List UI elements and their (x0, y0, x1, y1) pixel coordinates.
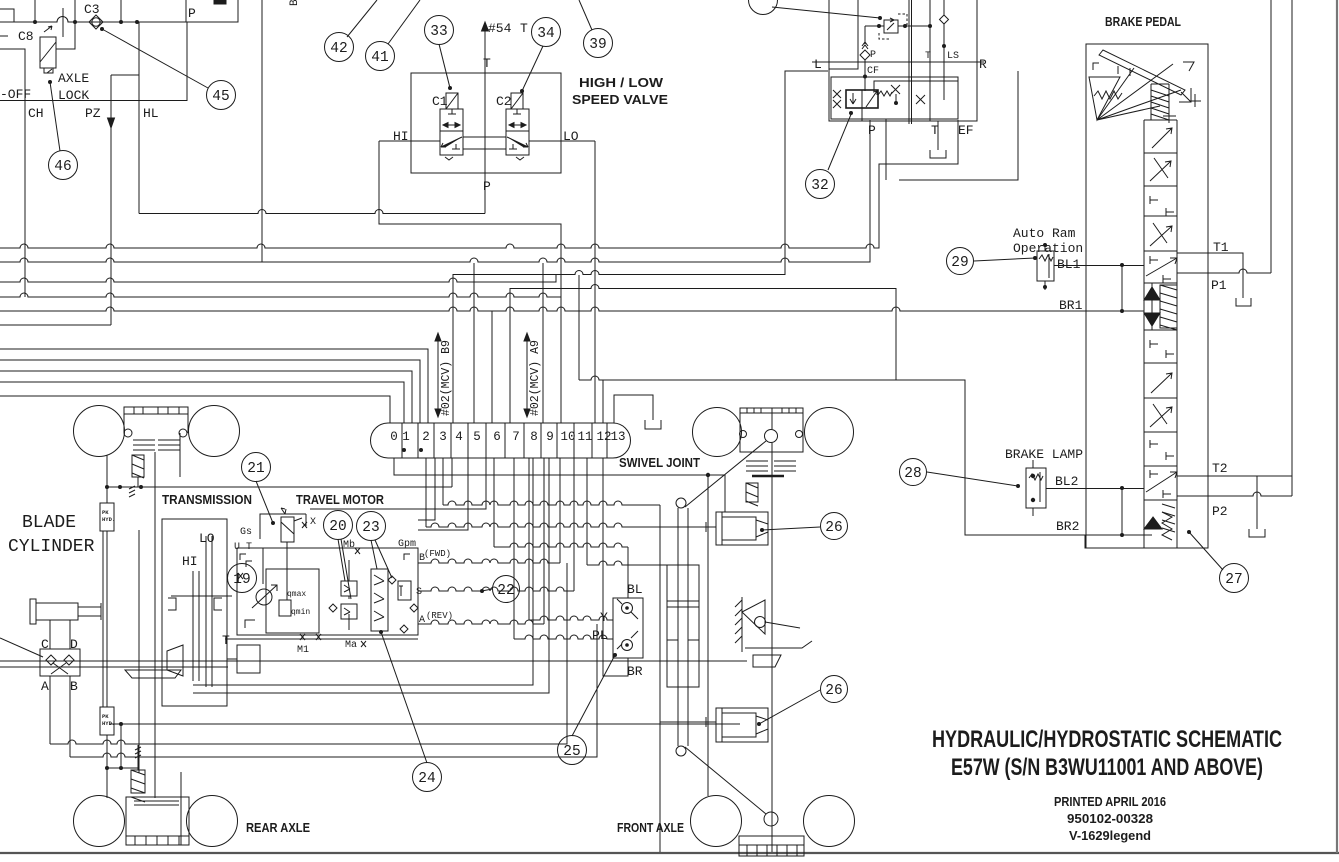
svg-text:0: 0 (390, 430, 398, 444)
svg-text:BRAKE LAMP: BRAKE LAMP (1005, 447, 1083, 462)
svg-text:B: B (70, 679, 78, 694)
svg-text:BRAKE PEDAL: BRAKE PEDAL (1105, 15, 1181, 29)
svg-text:PZ: PZ (85, 106, 101, 121)
svg-text:SPEED VALVE: SPEED VALVE (572, 93, 668, 107)
svg-text:Ma: Ma (345, 640, 357, 651)
svg-text:24: 24 (418, 771, 435, 787)
svg-text:42: 42 (330, 41, 347, 57)
svg-text:6: 6 (493, 430, 501, 444)
svg-text:23: 23 (362, 520, 379, 536)
svg-text:P2: P2 (1212, 504, 1228, 519)
svg-text:34: 34 (537, 26, 554, 42)
svg-text:S: S (416, 587, 422, 598)
svg-text:Gs: Gs (240, 527, 252, 538)
svg-text:PL: PL (592, 628, 608, 643)
svg-text:T: T (925, 51, 931, 62)
svg-text:B: B (289, 0, 301, 6)
svg-text:R: R (979, 57, 987, 72)
svg-text:L: L (814, 57, 822, 72)
svg-text:qmin: qmin (291, 608, 310, 617)
svg-text:E57W (S/N B3WU11001 AND ABOVE): E57W (S/N B3WU11001 AND ABOVE) (951, 754, 1263, 781)
svg-text:20: 20 (329, 519, 346, 535)
svg-text:19: 19 (233, 572, 250, 588)
svg-text:33: 33 (430, 24, 447, 40)
svg-text:Mb: Mb (343, 539, 355, 551)
svg-text:TRANSMISSION: TRANSMISSION (162, 493, 252, 507)
svg-text:P: P (868, 123, 876, 138)
svg-text:C1: C1 (432, 94, 448, 109)
svg-text:T: T (222, 633, 230, 648)
svg-text:(FWD): (FWD) (424, 549, 451, 559)
svg-text:PRINTED APRIL 2016: PRINTED APRIL 2016 (1054, 794, 1166, 809)
svg-text:4: 4 (455, 430, 463, 444)
svg-text:(REV): (REV) (426, 611, 453, 621)
svg-text:11: 11 (577, 430, 592, 444)
svg-text:M1: M1 (297, 645, 309, 656)
svg-text:41: 41 (371, 50, 388, 66)
svg-text:V-1629legend: V-1629legend (1069, 828, 1151, 843)
svg-text:A: A (41, 679, 49, 694)
svg-text:3: 3 (439, 430, 447, 444)
svg-text:#54: #54 (488, 21, 512, 36)
svg-text:D: D (70, 637, 78, 652)
svg-text:22: 22 (497, 583, 514, 599)
svg-text:9: 9 (546, 430, 554, 444)
svg-text:HIGH / LOW: HIGH / LOW (579, 76, 663, 90)
svg-text:LO: LO (199, 531, 215, 546)
svg-text:CYLINDER: CYLINDER (8, 537, 95, 557)
svg-text:LO: LO (563, 129, 579, 144)
svg-text:HYDRAULIC/HYDROSTATIC SCHEMATI: HYDRAULIC/HYDROSTATIC SCHEMATIC (932, 726, 1282, 753)
svg-text:BR1: BR1 (1059, 298, 1083, 313)
svg-text:REAR AXLE: REAR AXLE (246, 821, 310, 835)
svg-text:A: A (419, 615, 425, 626)
svg-text:46: 46 (54, 159, 71, 175)
svg-text:C2: C2 (496, 94, 512, 109)
svg-text:LS: LS (947, 51, 959, 62)
svg-text:BL: BL (627, 582, 643, 597)
svg-text:BR: BR (627, 664, 643, 679)
svg-text:EF: EF (958, 123, 974, 138)
svg-text:TRAVEL MOTOR: TRAVEL MOTOR (296, 493, 384, 507)
svg-text:BL2: BL2 (1055, 474, 1078, 489)
svg-text:21: 21 (247, 461, 264, 477)
svg-text:Auto Ram: Auto Ram (1013, 226, 1076, 241)
svg-text:2: 2 (422, 430, 430, 444)
svg-text:10: 10 (560, 430, 575, 444)
svg-text:SWIVEL JOINT: SWIVEL JOINT (619, 456, 700, 470)
svg-text:28: 28 (904, 466, 921, 482)
svg-text:AXLE: AXLE (58, 71, 89, 86)
svg-text:Operation: Operation (1013, 241, 1083, 256)
svg-text:45: 45 (212, 89, 229, 105)
svg-text:T2: T2 (1212, 461, 1228, 476)
svg-text:P: P (483, 179, 491, 194)
svg-text:T: T (931, 123, 939, 138)
svg-text:P1: P1 (1211, 278, 1227, 293)
svg-text:HI: HI (393, 129, 409, 144)
svg-text:C: C (41, 637, 49, 652)
svg-text:HI: HI (182, 554, 198, 569)
svg-text:X: X (310, 517, 316, 528)
svg-text:#02(MCV) B9: #02(MCV) B9 (440, 340, 453, 416)
svg-text:27: 27 (1225, 572, 1242, 588)
svg-text:BR2: BR2 (1056, 519, 1079, 534)
svg-text:7: 7 (512, 430, 520, 444)
svg-text:Gpm: Gpm (398, 539, 416, 550)
svg-text:-OFF: -OFF (0, 87, 31, 102)
svg-text:HL: HL (143, 106, 159, 121)
svg-text:HYD.: HYD. (102, 720, 115, 727)
svg-text:8: 8 (530, 430, 538, 444)
svg-text:T1: T1 (1213, 240, 1229, 255)
svg-text:CF: CF (867, 66, 879, 77)
svg-text:U T: U T (234, 542, 252, 553)
svg-text:BL1: BL1 (1057, 257, 1081, 272)
svg-text:26: 26 (825, 683, 842, 699)
svg-text:P: P (188, 6, 196, 21)
svg-text:#02(MCV) A9: #02(MCV) A9 (529, 340, 542, 416)
svg-text:12: 12 (596, 430, 611, 444)
svg-text:950102-00328: 950102-00328 (1067, 811, 1153, 826)
svg-text:HYD.: HYD. (102, 516, 115, 523)
svg-text:BLADE: BLADE (22, 513, 76, 533)
svg-text:1: 1 (402, 430, 410, 444)
svg-text:qmax: qmax (287, 590, 306, 599)
svg-text:25: 25 (563, 744, 580, 760)
svg-text:32: 32 (811, 178, 828, 194)
svg-text:PK: PK (102, 509, 109, 516)
svg-text:5: 5 (473, 430, 481, 444)
svg-text:29: 29 (951, 255, 968, 271)
svg-text:26: 26 (825, 520, 842, 536)
svg-text:13: 13 (610, 430, 625, 444)
svg-text:39: 39 (589, 37, 606, 53)
svg-text:P: P (870, 50, 876, 61)
svg-text:C8: C8 (18, 29, 34, 44)
svg-text:Y: Y (600, 610, 608, 625)
svg-text:C3: C3 (84, 2, 100, 17)
svg-text:CH: CH (28, 106, 44, 121)
svg-text:PK: PK (102, 713, 109, 720)
svg-text:T: T (483, 56, 491, 71)
svg-text:FRONT AXLE: FRONT AXLE (617, 821, 684, 835)
svg-text:T: T (520, 21, 528, 36)
svg-text:LOCK: LOCK (58, 88, 89, 103)
